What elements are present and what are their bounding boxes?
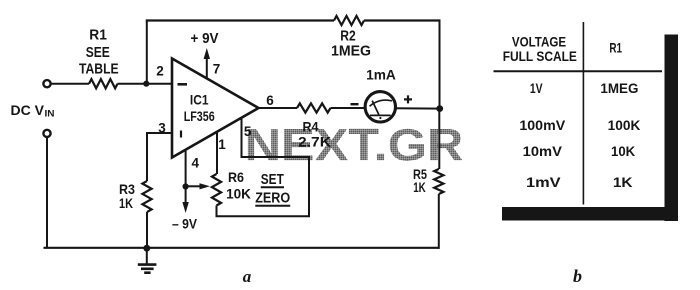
wire: top rail right of R2 [364, 19, 441, 21]
svg-text:+ 9V: + 9V [191, 31, 219, 47]
svg-text:FULL SCALE: FULL SCALE [503, 48, 577, 64]
svg-text:2.7K: 2.7K [298, 133, 331, 149]
resistor R4 [297, 103, 330, 112]
label ZERO (underlined) [255, 191, 290, 207]
svg-text:2: 2 [156, 64, 164, 79]
op-amp inverting minus sign [178, 83, 188, 86]
op-amp non-inverting tick [180, 131, 182, 138]
svg-text:1V: 1V [530, 80, 543, 96]
label R2 1MEG [331, 28, 371, 60]
table row 1mV / 1K [526, 174, 633, 190]
table row 1V / 1MEG [530, 80, 639, 96]
meter M1 (1mA) body [365, 92, 395, 122]
svg-text:1K: 1K [413, 180, 426, 195]
svg-text:10K: 10K [226, 185, 251, 201]
label R3 1K [119, 181, 135, 211]
svg-text:10mV: 10mV [523, 143, 563, 159]
pin 4 junction dot [183, 183, 189, 189]
svg-text:R4: R4 [303, 119, 319, 135]
label DC VIN [11, 102, 55, 120]
svg-text:VOLTAGE: VOLTAGE [512, 33, 566, 49]
potentiometer R6 body [212, 174, 221, 205]
label R6 10K [226, 169, 251, 201]
svg-text:6: 6 [266, 93, 274, 108]
svg-text:1K: 1K [119, 195, 133, 211]
node B junction dot [436, 105, 443, 112]
table header VOLTAGE FULL SCALE [503, 33, 577, 64]
wire: right vertical down to node B [439, 20, 441, 109]
svg-text:1MEG: 1MEG [331, 42, 371, 59]
svg-text:1MEG: 1MEG [600, 80, 638, 96]
wire: top rail left of R2 [146, 19, 334, 21]
node A junction dot [143, 81, 149, 87]
wire: R6 bottom to pin 5 loop [217, 119, 310, 217]
label R1 SEE TABLE [79, 27, 119, 78]
svg-text:R6: R6 [228, 169, 244, 185]
wire: meter to node B [396, 107, 440, 109]
op-amp U1 triangle [172, 59, 259, 158]
input terminal bottom (-) [43, 130, 50, 137]
label R4 2.7K [298, 119, 331, 150]
svg-text:100mV: 100mV [519, 117, 565, 133]
wire: R5 to bottom rail [438, 194, 440, 249]
watermark NEXT.GR [245, 120, 464, 171]
svg-text:R1: R1 [609, 40, 622, 56]
wire: pin 1 to R6 top [216, 132, 218, 174]
wire: top terminal to R1 [51, 83, 89, 85]
wire: bottom terminal down [46, 137, 48, 248]
resistor R1 [89, 79, 118, 88]
svg-text:IC1: IC1 [190, 92, 209, 107]
meter minus polarity mark [351, 103, 359, 105]
label IC1 LF356 [184, 92, 215, 123]
resistor R2 [334, 16, 364, 25]
table row 10mV / 10K [523, 143, 636, 159]
svg-text:– 9V: – 9V [172, 216, 198, 232]
svg-text:1mV: 1mV [526, 174, 561, 190]
bottom ground rail wire [44, 247, 440, 249]
table row 100mV / 100K [519, 117, 640, 133]
label R5 1K [413, 167, 427, 195]
table thick right border bar [665, 35, 679, 222]
wire: node B down to R5 [438, 109, 440, 169]
+9V supply arrow head [204, 48, 210, 59]
svg-text:5: 5 [244, 124, 252, 139]
svg-text:R1: R1 [89, 27, 107, 44]
potentiometer R6 wiper arrow [187, 183, 210, 189]
meter plus polarity mark [404, 95, 412, 103]
pin 7 wire [206, 56, 208, 78]
table column divider [582, 22, 584, 205]
resistor R5 [434, 169, 443, 194]
svg-text:SEE: SEE [86, 44, 110, 61]
table thick bottom border bar [502, 207, 678, 221]
svg-text:7: 7 [213, 61, 221, 76]
resistor R3 [142, 181, 151, 212]
pin 3 wire [147, 133, 172, 181]
svg-text:4: 4 [191, 156, 199, 171]
label SET (underlined) [261, 172, 284, 188]
svg-text:a: a [243, 267, 252, 286]
svg-text:NEXT.GR: NEXT.GR [245, 120, 464, 171]
svg-text:b: b [573, 266, 582, 286]
svg-text:1K: 1K [613, 174, 633, 190]
pin 4 wire [185, 150, 187, 187]
svg-text:TABLE: TABLE [79, 60, 119, 77]
svg-text:3: 3 [158, 121, 166, 136]
svg-text:ZERO: ZERO [255, 191, 290, 207]
svg-text:IN: IN [45, 109, 55, 120]
-9V supply arrow [182, 187, 188, 214]
svg-text:1: 1 [218, 137, 226, 152]
wire: feedback vertical node A up [146, 20, 148, 84]
wire: R4 to meter [331, 107, 365, 109]
svg-text:DC V: DC V [11, 102, 45, 118]
svg-text:LF356: LF356 [184, 109, 215, 124]
wire: pin 6 output to R4 [259, 107, 298, 109]
ground rail junction dot [143, 245, 150, 252]
ground symbol [138, 248, 157, 273]
svg-text:10K: 10K [611, 143, 635, 159]
wire: R1 to node A [118, 83, 173, 85]
wire: R3 to ground rail [146, 212, 148, 248]
svg-text:100K: 100K [608, 117, 641, 133]
input terminal top (+) [43, 80, 50, 87]
svg-text:1mA: 1mA [366, 66, 396, 82]
svg-text:SET: SET [261, 172, 284, 188]
table header underline [494, 70, 663, 72]
